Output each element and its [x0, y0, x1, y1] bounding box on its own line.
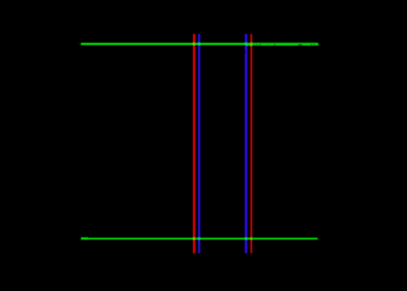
faint green smudge left of top line start [77, 42, 80, 45]
vertical blue cursor line 2 [245, 34, 247, 253]
subtle dark patch on blue line 2 below top line [245, 50, 246, 54]
green label text overlapping top line [252, 43, 318, 46]
top green horizontal line [81, 43, 318, 45]
label mottling notches [253, 44, 314, 46]
vertical red cursor line 2 [250, 34, 252, 253]
bottom green horizontal line [81, 238, 318, 240]
thicker tip at bottom line start [81, 237, 88, 239]
vertical red cursor line 1 [193, 34, 195, 253]
vertical blue cursor line 1 [198, 34, 200, 253]
label text descender marks [247, 45, 250, 46]
